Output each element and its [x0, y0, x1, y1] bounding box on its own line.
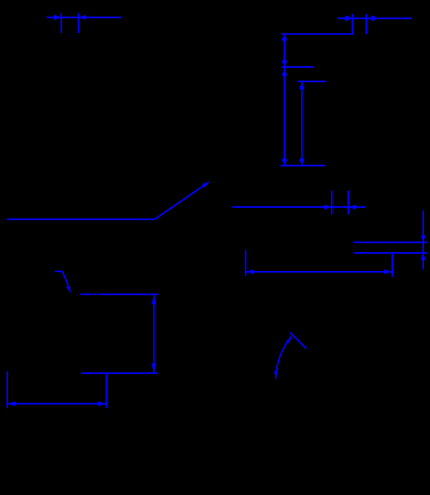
arrowhead right pointing right (bottom-left width dimension)	[98, 401, 105, 406]
arrowhead below pointing up (right small gap dimension)	[421, 253, 426, 260]
leader stub horizontal (lower-left leader)	[55, 270, 63, 272]
object line upper (right small gap feature)	[354, 241, 428, 243]
extension line 1 (top-right dot dimension)	[351, 14, 353, 34]
dot arrowhead (vert dim 1 upper bottom)	[282, 59, 287, 64]
leader line diagonal segment (centre-left leader)	[155, 184, 207, 220]
leader arrowhead pointing down-right (lower-left leader)	[66, 285, 71, 293]
angular dimension arc (bottom-right)	[276, 336, 292, 379]
arrowhead outside-right pointing left (top-left dimension)	[79, 15, 86, 20]
extension line 2 (middle dimension)	[347, 191, 349, 215]
extension line right (bottom-centre dimension)	[391, 253, 393, 277]
vertical dimension line 1 (right-centre stacked dims)	[283, 34, 285, 166]
vertical dimension line 2 (right-centre)	[301, 81, 303, 165]
arrowhead outside-right pointing left (middle dimension)	[348, 205, 356, 210]
arrowhead outside-left pointing right (middle dimension)	[324, 205, 332, 210]
vertical dimension line (lower-left feature height)	[153, 294, 155, 373]
object line top (lower-left feature) dashed start	[80, 293, 159, 295]
dimension line (bottom-left width dimension)	[7, 403, 106, 405]
arrowhead left pointing left (bottom-centre dimension)	[246, 269, 253, 274]
object line bottom (right-centre feature)	[280, 165, 325, 167]
dot arrowhead (vert dim 1 lower bottom)	[282, 158, 287, 163]
object line top (right-centre feature)	[281, 33, 353, 35]
leader arrowhead (centre-left leader)	[202, 181, 210, 187]
dot arrowhead (vert dim 2 bottom)	[300, 158, 305, 163]
dimension line (bottom-centre dimension)	[246, 271, 393, 273]
dimension line (top-right dot dimension)	[337, 17, 412, 19]
arrowhead above pointing down (right small gap dimension)	[421, 235, 426, 242]
object line bottom (lower-left feature)	[82, 372, 159, 374]
arrowhead top pointing up (lower-left height dimension)	[152, 295, 157, 304]
arrowhead bottom pointing down (lower-left height dimension)	[152, 363, 157, 372]
object line upper of second dim (right-centre feature)	[298, 80, 327, 82]
dimension line (middle dimension, arrows outside)	[232, 206, 365, 208]
leader line horizontal segment (centre-left leader)	[7, 218, 155, 220]
dot arrowhead (vert dim 2 top)	[300, 85, 305, 90]
arrowhead left pointing left (bottom-left width dimension)	[8, 401, 15, 406]
arc arrowhead top pointing up-right (angular dimension)	[286, 338, 291, 344]
extension line 2 (top-left dimension)	[78, 13, 80, 33]
arrowhead outside-left pointing right (top-left dimension)	[54, 15, 61, 20]
leader diagonal (lower-left leader)	[62, 271, 68, 285]
dimension line (top-left dimension, arrows outside)	[47, 16, 122, 18]
oblique extension line at arc end (angular dimension)	[290, 333, 306, 349]
arc arrowhead bottom pointing down (angular dimension)	[274, 371, 278, 378]
arrowhead right pointing right (bottom-centre dimension)	[384, 269, 391, 274]
extension line 2 (top-right dot dimension)	[365, 14, 367, 34]
object line lower (right small gap feature)	[354, 252, 428, 254]
extension line 1 (middle dimension)	[331, 191, 333, 215]
extension line left (bottom-centre dimension)	[245, 250, 247, 276]
dot arrowhead (vert dim 1 upper top)	[282, 37, 287, 42]
extension line right (bottom-left width dimension)	[105, 373, 107, 408]
object line middle (right-centre feature)	[281, 66, 314, 68]
dot arrowhead left (top-right dot dimension)	[344, 16, 349, 21]
dot arrowhead (vert dim 1 lower top)	[282, 72, 287, 77]
dot arrowhead right (top-right dot dimension)	[370, 16, 375, 21]
vertical dimension line (right small gap dimension)	[422, 211, 424, 270]
extension line 1 (top-left dimension)	[60, 13, 62, 33]
extension line left (bottom-left width dimension)	[6, 371, 8, 408]
